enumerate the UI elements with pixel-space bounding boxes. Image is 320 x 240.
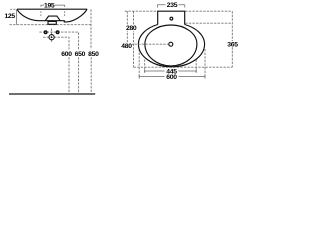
svg-text:850: 850 [88, 51, 99, 58]
svg-text:195: 195 [44, 2, 55, 9]
svg-text:280: 280 [126, 25, 137, 32]
svg-text:125: 125 [4, 13, 15, 20]
svg-text:365: 365 [227, 41, 238, 48]
svg-text:480: 480 [121, 43, 132, 50]
svg-text:650: 650 [75, 51, 86, 58]
svg-text:235: 235 [167, 2, 178, 9]
svg-text:600: 600 [61, 51, 72, 58]
svg-text:600: 600 [166, 74, 177, 81]
